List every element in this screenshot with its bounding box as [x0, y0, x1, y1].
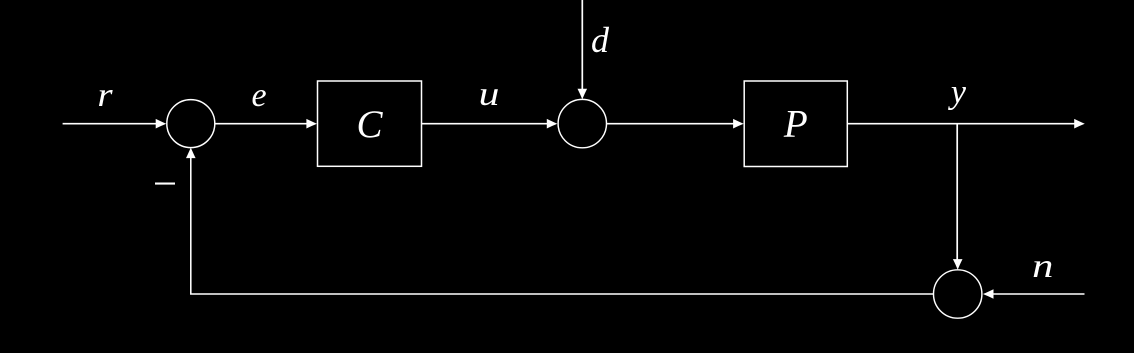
- svg-text:d: d: [591, 20, 610, 60]
- svg-text:e: e: [251, 77, 266, 114]
- svg-text:y: y: [948, 74, 967, 111]
- svg-text:r: r: [97, 75, 113, 113]
- svg-text:u: u: [479, 76, 500, 114]
- svg-text:C: C: [356, 103, 383, 146]
- svg-text:P: P: [783, 103, 808, 146]
- svg-text:n: n: [1032, 248, 1053, 285]
